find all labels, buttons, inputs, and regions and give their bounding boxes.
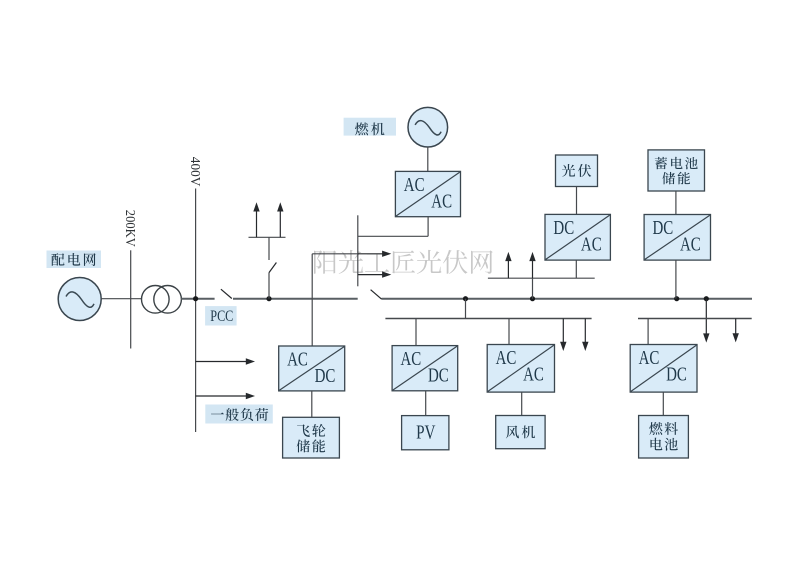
label box 蓄电池储能 [648,150,705,191]
general load arrow 2 [196,393,255,399]
svg-text:PCC: PCC [210,308,233,325]
general load arrow 1 [196,358,255,364]
wire 光伏 to converter U2 [576,187,578,215]
load arrow up 2 [277,202,283,237]
svg-text:AC: AC [431,191,452,212]
svg-text:AC: AC [401,349,422,370]
AC grid source circle [58,278,101,321]
junction node dots on bus [193,296,709,301]
label box 光伏 [556,155,598,187]
watermark text [314,250,493,274]
wire converter U1 to busbar B [358,217,428,237]
box 飞轮储能 [283,417,340,458]
load arrow up 1 [253,202,259,237]
label 配电网 [47,251,102,269]
box 风机 [496,416,545,449]
svg-text:DC: DC [428,366,449,387]
branch load arrow right 2 [358,271,392,277]
converter U1 AC/AC [395,171,460,216]
svg-text:AC: AC [523,364,544,385]
wire sub-bus to U7 [647,319,649,345]
wire bar to bus [532,278,534,299]
switch S2 on bus [371,290,382,299]
branch load arrow right 1 [312,251,391,257]
svg-text:DC: DC [653,218,674,239]
svg-text:200KV: 200KV [123,210,138,247]
svg-text:AC: AC [496,348,517,369]
box PV [402,416,449,450]
PV load bar [488,277,595,279]
converter U7 AC/DC [630,345,697,393]
converter U4 AC/DC [279,346,345,391]
label 一般负荷 [205,405,272,424]
wire 蓄电池 to converter U3 [675,191,677,215]
flywheel riser wire with elbow arrow [311,254,313,346]
switch S1 on bus [221,289,232,298]
wire sub-bus to U6 [508,319,510,345]
svg-text:AC: AC [404,175,425,196]
right sub-bus [638,318,752,320]
label 燃机 [344,118,396,136]
wire U6 to 风机 [521,392,523,415]
load bar [249,236,286,238]
converter U5 AC/DC [392,346,458,391]
box 燃料电池 [639,416,689,459]
svg-text:AC: AC [287,350,308,371]
svg-text:AC: AC [680,234,701,255]
wire sub-bus to U5 [415,319,417,346]
wire U5 to PV box [425,391,427,416]
sub-bus arrow down 2 [582,319,588,352]
sub-bus arrow down 1 [560,319,566,352]
400V line [195,189,197,433]
label PCC [205,306,237,325]
wire U4 to 飞轮储能 [311,391,313,417]
wire source to transformer [101,298,141,300]
busbar B vertical [357,215,359,286]
svg-text:DC: DC [315,366,336,387]
wire U7 to 燃料电池 [662,392,664,415]
transformer T1 [142,286,182,314]
wire bus to left sub-bus [465,299,467,319]
PV bar arrow up 1 [505,252,511,278]
left sub-bus [385,318,591,320]
svg-text:AC: AC [639,348,660,369]
wire turbine to converter [427,147,429,171]
svg-text:PV: PV [416,423,435,444]
converter U6 AC/AC [487,345,554,393]
gas turbine AC circle [408,107,448,147]
PV bar arrow up 2 [529,252,535,278]
switch S3 vertical [269,263,276,273]
200KV line [130,250,132,348]
converter U3 DC/AC [644,215,710,261]
svg-text:400V: 400V [188,157,203,187]
wire U2 to load bar [575,260,577,278]
converter U2 DC/AC [545,214,610,260]
svg-text:DC: DC [666,364,687,385]
svg-text:AC: AC [581,234,602,255]
svg-text:DC: DC [553,218,574,239]
wire bus through right sub-bus arrow [703,299,709,343]
main bus wire segments [181,298,752,300]
wire U3 to bus [675,260,677,299]
load branch riser wire [268,237,270,298]
right sub-bus arrow down [733,319,739,343]
